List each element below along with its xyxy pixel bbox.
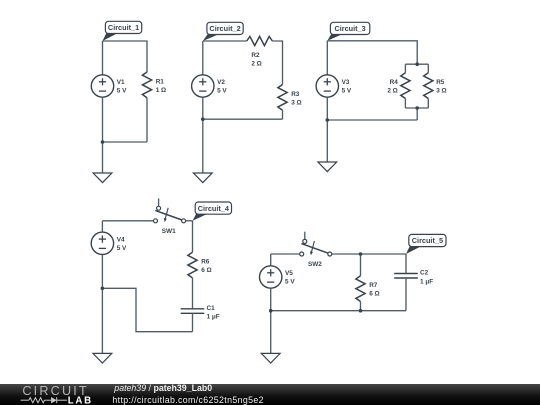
wire: Circuit_5 bottom	[271, 310, 406, 312]
node flag Circuit_1	[103, 33, 119, 42]
wire: V5 to ground	[270, 288, 272, 353]
svg-text:6 Ω: 6 Ω	[369, 291, 379, 298]
ground (Circuit_2)	[193, 173, 212, 183]
svg-text:5 V: 5 V	[217, 88, 227, 95]
svg-text:V3: V3	[342, 79, 350, 86]
wire: Circuit_3 bottom	[327, 119, 417, 121]
node flag Circuit_3	[327, 34, 344, 41]
resistor R5 (3 &#937;)	[424, 73, 433, 99]
svg-text:V2: V2	[217, 79, 225, 86]
wire: V5 top lead	[270, 254, 272, 266]
wire: Circuit_1 bottom	[103, 141, 148, 143]
svg-text:5 V: 5 V	[285, 279, 295, 286]
wire: node to R6	[192, 221, 194, 252]
wire: parallel top bar	[405, 63, 428, 65]
wire: node to R7	[360, 254, 362, 276]
svg-text:V4: V4	[117, 236, 125, 243]
svg-text:5 V: 5 V	[342, 88, 352, 95]
node flag Circuit_2	[203, 34, 221, 42]
switch SW2	[304, 232, 306, 239]
resistor R6 (6 &#937;)	[188, 252, 197, 278]
junction: Circuit_4 bottom node	[101, 287, 105, 291]
wire: C1 bottom lead	[192, 313, 194, 331]
wire: Circuit_1 top loop	[103, 41, 148, 72]
svg-text:R1: R1	[156, 78, 165, 85]
wire: parallel to bottom	[416, 108, 418, 120]
svg-text:R5: R5	[436, 79, 445, 86]
svg-text:V1: V1	[117, 79, 125, 86]
ground (Circuit_3)	[318, 162, 337, 172]
resistor R1 (1 &#937;)	[142, 72, 151, 98]
voltage source V1 (5 V)	[91, 75, 113, 97]
switch SW1	[158, 199, 160, 206]
wire: SW1 to node	[186, 220, 193, 222]
wire: C2 bottom lead	[405, 278, 407, 311]
svg-text:R4: R4	[390, 79, 399, 86]
svg-text:5 V: 5 V	[117, 245, 127, 252]
svg-text:SW1: SW1	[162, 228, 176, 235]
wire: Circuit_3 top	[327, 41, 417, 64]
junction: Circuit_1 bottom node	[101, 140, 105, 144]
wire: V2 to ground	[202, 97, 204, 173]
svg-text:1 μF: 1 μF	[420, 278, 433, 285]
wire: V1 to ground	[102, 97, 104, 173]
wire: V3 to ground	[326, 97, 328, 162]
svg-text:Circuit_5: Circuit_5	[412, 236, 443, 245]
wire: R4 bottom lead	[404, 99, 406, 109]
svg-text:C1: C1	[207, 305, 216, 312]
wire: R3 bottom lead	[282, 110, 284, 119]
node flag Circuit_5	[406, 246, 422, 254]
ground (Circuit_5)	[261, 353, 280, 363]
wire: V3 top lead	[326, 41, 328, 75]
svg-text:V5: V5	[285, 270, 293, 277]
svg-text:Circuit_3: Circuit_3	[334, 24, 365, 33]
wire: R2 to R3	[272, 41, 282, 85]
wire: R1 bottom lead	[146, 98, 148, 142]
wire: V5 to SW2	[271, 253, 300, 255]
svg-text:3 Ω: 3 Ω	[291, 99, 301, 106]
svg-text:Circuit_4: Circuit_4	[198, 204, 230, 213]
svg-text:R6: R6	[201, 258, 210, 265]
wire: Circuit_2 bottom	[203, 118, 283, 120]
voltage source V4 (5 V)	[91, 232, 113, 254]
junction: Circuit_2 bottom node	[201, 117, 205, 121]
wire: V4 top lead	[101, 221, 103, 232]
resistor R7 (6 &#937;)	[356, 276, 365, 302]
junction: Circuit_5 bottom node	[269, 309, 273, 313]
wire: V4 to ground	[101, 255, 103, 354]
wire: V2 to R2	[203, 40, 247, 42]
capacitor C2 (1 &#956;F)	[394, 273, 418, 275]
capacitor C1 (1 &#956;F)	[181, 308, 205, 310]
junction: R7 bottom node	[359, 309, 363, 313]
svg-text:1 Ω: 1 Ω	[156, 87, 166, 94]
wire: R4 top lead	[404, 64, 406, 73]
svg-text:2 Ω: 2 Ω	[251, 60, 261, 67]
ground (Circuit_4)	[93, 353, 112, 363]
svg-text:SW2: SW2	[308, 261, 322, 268]
wire: R5 top lead	[427, 64, 429, 73]
wire: R5 bottom lead	[427, 99, 429, 109]
svg-text:5 V: 5 V	[117, 88, 127, 95]
voltage source V3 (5 V)	[316, 75, 338, 97]
wire: V2 top lead	[202, 41, 204, 75]
wire: parallel bottom bar	[405, 107, 428, 109]
wire: node to C2	[405, 254, 407, 274]
svg-text:LAB: LAB	[68, 395, 93, 405]
junction: parallel bottom node	[415, 106, 419, 110]
svg-text:1 μF: 1 μF	[207, 314, 220, 321]
resistor R4 (2 &#937;)	[401, 73, 410, 99]
svg-text:C2: C2	[420, 270, 429, 277]
junction: Circuit_3 bottom node	[326, 118, 330, 122]
wire: R6 to C1	[192, 278, 194, 309]
svg-text:R2: R2	[251, 52, 260, 59]
ground (Circuit_1)	[93, 173, 112, 183]
resistor R3 (3 &#937;)	[278, 85, 287, 111]
svg-text:2 Ω: 2 Ω	[387, 88, 397, 95]
svg-text:3 Ω: 3 Ω	[436, 88, 446, 95]
wire: V1 top lead	[102, 41, 104, 75]
junction: parallel top node	[415, 62, 419, 66]
voltage source V2 (5 V)	[192, 75, 214, 97]
footer text line 2	[112, 395, 263, 405]
junction: R7 top node	[359, 252, 363, 256]
footer text line 1	[114, 383, 212, 393]
node flag Circuit_4	[193, 213, 209, 221]
resistor R2 (2 &#937;)	[247, 36, 273, 45]
svg-text:6 Ω: 6 Ω	[201, 267, 211, 274]
wire: R7 bottom lead	[360, 302, 362, 311]
voltage source V5 (5 V)	[260, 266, 282, 288]
wire: SW2 to C2 node	[332, 253, 406, 255]
svg-text:Circuit_2: Circuit_2	[209, 24, 240, 33]
svg-text:R3: R3	[291, 91, 300, 98]
wire: C1 return path	[102, 288, 192, 331]
svg-text:Circuit_1: Circuit_1	[108, 23, 139, 32]
svg-text:R7: R7	[369, 282, 378, 289]
CircuitLab logo	[0, 384, 110, 405]
footer bar	[0, 384, 540, 405]
wire: V4 to SW1	[102, 220, 153, 222]
